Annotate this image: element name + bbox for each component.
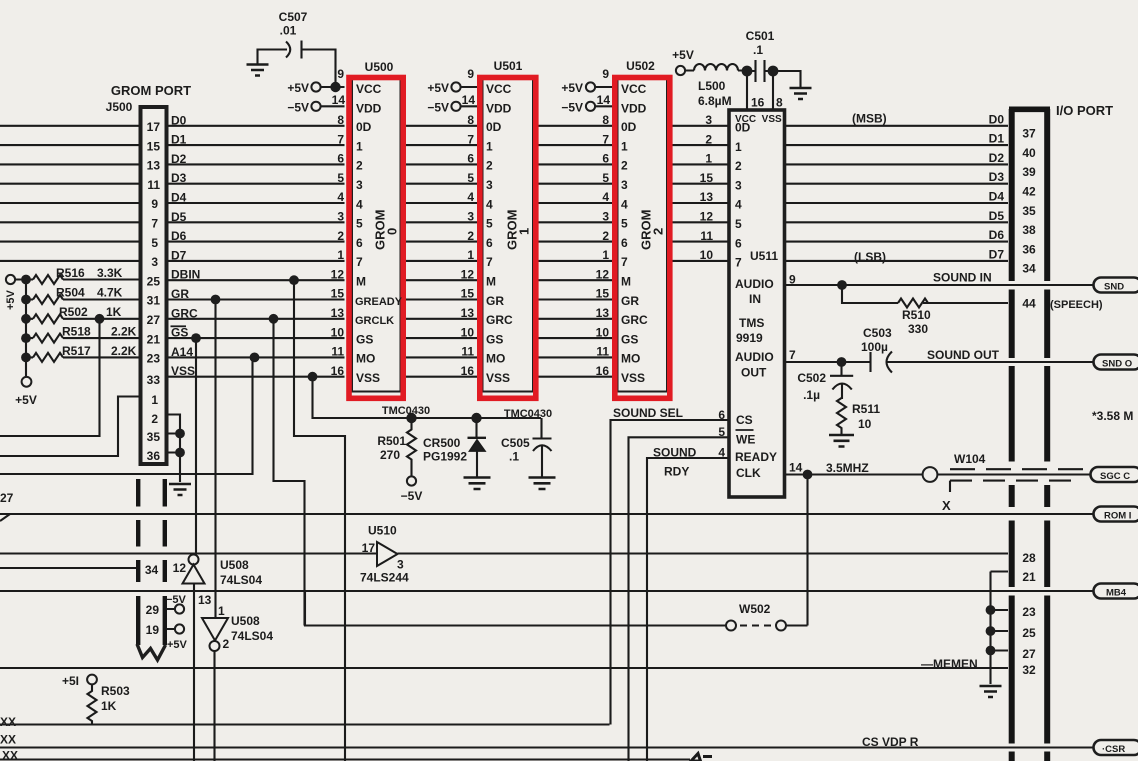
svg-text:5: 5 (602, 171, 609, 185)
svg-text:−5V: −5V (561, 100, 583, 114)
svg-text:+5V: +5V (561, 81, 583, 95)
svg-text:WE: WE (736, 433, 755, 447)
svg-text:7: 7 (486, 255, 493, 269)
wire A14 row (26, 356, 612, 358)
edge tab MB4 (1094, 584, 1138, 599)
svg-text:−5V: −5V (287, 100, 309, 114)
svg-text:XX: XX (2, 749, 18, 761)
jumper W502 right circle (776, 621, 786, 631)
junction dot GR (211, 295, 221, 305)
svg-text:2: 2 (151, 412, 158, 426)
junction dots C501 (742, 66, 753, 77)
svg-text:GS: GS (356, 332, 373, 346)
svg-text:4.7K: 4.7K (97, 286, 123, 300)
svg-text:M: M (621, 275, 631, 289)
svg-text:SOUND: SOUND (653, 446, 697, 460)
ground R511 (829, 435, 854, 447)
svg-text:11: 11 (147, 178, 160, 192)
svg-text:READY: READY (735, 450, 777, 464)
svg-text:9: 9 (602, 67, 609, 81)
svg-text:12: 12 (700, 210, 714, 224)
svg-text:D4: D4 (171, 191, 187, 205)
svg-text:MB4: MB4 (1106, 588, 1127, 599)
svg-text:6: 6 (467, 152, 474, 166)
wire R502 to edge (0, 319, 100, 436)
ground IO (980, 686, 1002, 697)
svg-text:6: 6 (337, 152, 344, 166)
junction dot GRC (269, 314, 279, 324)
svg-text:+5V: +5V (672, 48, 694, 62)
svg-text:U500: U500 (365, 60, 394, 74)
svg-text:9: 9 (789, 273, 796, 287)
wire D3 bus (0, 183, 1008, 185)
svg-text:2: 2 (705, 132, 712, 146)
svg-text:VCC: VCC (621, 82, 647, 96)
terminal +5I R503 (87, 675, 97, 685)
svg-text:D5: D5 (989, 209, 1005, 223)
svg-text:5: 5 (486, 217, 493, 231)
svg-text:R518: R518 (62, 325, 91, 339)
svg-text:GRCLK: GRCLK (355, 315, 394, 327)
edge tab CSR (1094, 740, 1138, 755)
svg-text:25: 25 (1022, 626, 1036, 640)
junction dot GS (191, 333, 201, 343)
wire W104 to SGC (938, 473, 1101, 475)
svg-text:2: 2 (486, 159, 493, 173)
svg-text:12: 12 (596, 267, 610, 281)
resistor R518 (33, 334, 63, 343)
svg-text:5: 5 (151, 236, 158, 250)
chip U511 box (729, 110, 785, 497)
svg-text:U502: U502 (626, 59, 655, 73)
svg-text:—MEMEN: —MEMEN (921, 657, 978, 671)
svg-text:15: 15 (596, 287, 610, 301)
connector J500 right bar dashes (163, 479, 167, 645)
svg-text:9: 9 (337, 67, 344, 81)
svg-text:X: X (942, 498, 951, 513)
svg-text:GS: GS (171, 326, 188, 340)
svg-text:SGC C: SGC C (1100, 471, 1130, 482)
resistor R501 (407, 418, 416, 477)
glyph bottom cut (691, 754, 712, 761)
svg-text:J500: J500 (106, 100, 133, 114)
ground pins35 36 (169, 484, 191, 495)
svg-text:U511: U511 (750, 249, 778, 263)
wire DBIN chain (294, 280, 345, 761)
svg-text:OUT: OUT (741, 366, 767, 380)
svg-text:VSS: VSS (621, 371, 645, 385)
svg-text:42: 42 (1022, 185, 1036, 199)
svg-text:GR: GR (621, 294, 639, 308)
wire ROM row (0, 514, 1093, 521)
wire SOUND IN (785, 284, 1094, 286)
svg-text:W104: W104 (954, 452, 986, 466)
wire pins29 19 stubs (167, 609, 176, 629)
wire MB4 row (0, 590, 1093, 592)
svg-text:AUDIO: AUDIO (735, 277, 774, 291)
svg-text:+5I: +5I (62, 674, 79, 688)
svg-text:GROM PORT: GROM PORT (111, 83, 191, 98)
svg-text:21: 21 (147, 332, 161, 346)
resistor R516 (33, 275, 63, 284)
highlight box U502 (615, 78, 670, 399)
wire A14 chain (0, 357, 253, 474)
svg-text:VDD: VDD (486, 101, 512, 115)
wire U511 pin8 (772, 71, 774, 110)
wire +5V pullup rail (25, 280, 27, 378)
capacitor C502 (830, 362, 853, 399)
svg-text:25: 25 (147, 274, 161, 288)
svg-text:13: 13 (700, 190, 714, 204)
svg-text:D0: D0 (171, 113, 187, 127)
svg-text:14: 14 (789, 461, 803, 475)
svg-text:GRC: GRC (621, 313, 648, 327)
highlight box U500 (349, 78, 403, 399)
svg-text:3.5MHZ: 3.5MHZ (826, 461, 869, 475)
svg-text:28: 28 (1022, 551, 1036, 565)
svg-text:4: 4 (735, 198, 742, 212)
svg-text:2: 2 (337, 229, 344, 243)
wire SOUND SEL chain (611, 420, 730, 725)
svg-text:6.8µM: 6.8µM (698, 94, 732, 108)
junction dot R502 right (95, 314, 105, 324)
svg-text:2.2K: 2.2K (111, 325, 137, 339)
wire pin1 elbow (0, 397, 141, 457)
wire VSS row (167, 376, 613, 378)
svg-text:6: 6 (356, 236, 363, 250)
svg-text:10: 10 (700, 248, 714, 262)
overline GS J500 (171, 325, 187, 327)
svg-text:C502: C502 (797, 371, 826, 385)
chip U500 box (352, 79, 401, 392)
svg-text:.1: .1 (753, 43, 763, 57)
svg-text:SOUND SEL: SOUND SEL (613, 406, 683, 420)
svg-text:RDY: RDY (664, 465, 689, 479)
svg-text:23: 23 (1022, 605, 1036, 619)
pin labels U511 (735, 121, 751, 270)
terminal -5V R501 (407, 476, 416, 485)
wire CS VDP R row (0, 746, 1093, 748)
junction dot R501 (406, 413, 416, 423)
capacitor C501 (747, 60, 801, 88)
svg-text:VDD: VDD (356, 101, 382, 115)
wire XX row3 (0, 758, 690, 760)
svg-text:D2: D2 (989, 151, 1005, 165)
wire U510 input (0, 552, 377, 554)
svg-text:CS VDP R: CS VDP R (862, 735, 919, 749)
inverter U508a (189, 555, 199, 565)
connector J500 left bar dashes (136, 479, 140, 645)
wire DBIN row (15, 278, 612, 281)
svg-text:1: 1 (218, 604, 225, 618)
svg-text:2: 2 (735, 159, 742, 173)
svg-text:12: 12 (173, 561, 187, 575)
svg-text:R503: R503 (101, 684, 130, 698)
svg-text:31: 31 (147, 294, 161, 308)
svg-text:23: 23 (147, 352, 161, 366)
wire GR chain (215, 300, 216, 761)
wire MEMEN row (0, 667, 1008, 669)
svg-text:−5V: −5V (427, 100, 449, 114)
wire D4 bus (0, 202, 1008, 204)
svg-text:D1: D1 (989, 132, 1005, 146)
svg-text:27: 27 (0, 491, 14, 505)
svg-text:7: 7 (735, 256, 742, 270)
svg-text:27: 27 (147, 313, 161, 327)
svg-text:C501: C501 (746, 29, 775, 43)
svg-text:5: 5 (718, 425, 725, 439)
svg-text:13: 13 (331, 306, 345, 320)
svg-text:15: 15 (700, 171, 714, 185)
svg-text:D3: D3 (989, 170, 1005, 184)
svg-text:1: 1 (356, 139, 363, 153)
svg-text:11: 11 (331, 345, 344, 359)
jumper W104 dashes above (950, 468, 1099, 470)
svg-text:+5V: +5V (287, 81, 309, 95)
svg-text:D6: D6 (989, 228, 1005, 242)
svg-text:D6: D6 (171, 229, 187, 243)
junction dot A14 (250, 353, 260, 363)
svg-text:2.2K: 2.2K (111, 344, 137, 358)
terminal -5V U501 (451, 102, 460, 111)
svg-text:17: 17 (147, 120, 161, 134)
wire U510 output to pin28 (398, 552, 1009, 554)
svg-text:11: 11 (596, 345, 609, 359)
svg-text:6: 6 (486, 236, 493, 250)
ground CR500 (464, 478, 491, 490)
svg-text:39: 39 (1022, 165, 1036, 179)
svg-text:35: 35 (147, 430, 161, 444)
svg-text:37: 37 (1022, 127, 1036, 141)
svg-text:74LS04: 74LS04 (231, 629, 273, 643)
edge tab SND (1094, 278, 1138, 293)
svg-text:DBIN: DBIN (171, 268, 200, 282)
terminal +5V DBIN (6, 275, 15, 284)
svg-text:35: 35 (1022, 204, 1036, 218)
wire GRC row (26, 318, 612, 320)
svg-text:0D: 0D (621, 120, 637, 134)
junction dots pins35 36 (175, 429, 185, 439)
svg-text:4: 4 (337, 190, 344, 204)
svg-text:74LS244: 74LS244 (360, 571, 409, 585)
svg-text:D4: D4 (989, 190, 1005, 204)
svg-text:D7: D7 (989, 247, 1005, 261)
svg-text:GRC: GRC (486, 313, 513, 327)
capacitor C503 (871, 352, 893, 373)
svg-text:W502: W502 (739, 602, 771, 616)
svg-text:3: 3 (397, 558, 404, 572)
svg-text:U501: U501 (494, 59, 523, 73)
svg-text:PG1992: PG1992 (423, 450, 467, 464)
svg-text:21: 21 (1022, 570, 1036, 584)
junction dots IO 23 25 27 (986, 605, 996, 615)
svg-text:10: 10 (858, 417, 872, 431)
svg-text:7: 7 (789, 348, 796, 362)
terminal +5V U501 (451, 82, 460, 91)
wire D6 bus (0, 241, 1008, 243)
svg-text:1: 1 (705, 152, 712, 166)
terminal -5V U500 (311, 102, 320, 111)
svg-text:13: 13 (596, 306, 610, 320)
svg-text:2: 2 (356, 159, 363, 173)
svg-text:−5V: −5V (166, 594, 187, 606)
chip U501 box (483, 79, 534, 392)
svg-text:VCC: VCC (356, 82, 382, 96)
svg-text:8: 8 (602, 113, 609, 127)
net labels D0-D7 right (989, 112, 1005, 261)
svg-text:4: 4 (718, 446, 725, 460)
svg-text:34: 34 (145, 563, 159, 577)
svg-text:13: 13 (147, 159, 161, 173)
svg-text:+5V: +5V (15, 393, 37, 407)
jumper W502 left circle (726, 621, 736, 631)
svg-text:16: 16 (596, 364, 610, 378)
svg-text:R516: R516 (56, 266, 85, 280)
svg-text:0: 0 (385, 228, 400, 235)
capacitor C507 (258, 41, 336, 88)
svg-text:9: 9 (467, 67, 474, 81)
svg-text:2: 2 (223, 637, 230, 651)
wire U511 pin16 (746, 71, 748, 110)
svg-text:I/O PORT: I/O PORT (1056, 103, 1113, 118)
svg-text:(LSB): (LSB) (854, 250, 886, 264)
terminal +5V U500 (311, 82, 320, 91)
svg-text:D2: D2 (171, 152, 187, 166)
wire XX row1 (0, 723, 610, 725)
svg-text:·CSR: ·CSR (1102, 744, 1125, 755)
terminal -5V U502 (586, 102, 595, 111)
wire SOUND RDY chain (647, 458, 729, 761)
svg-text:4: 4 (356, 197, 363, 211)
svg-text:+5V: +5V (427, 81, 449, 95)
jumper W502 dashes (740, 624, 772, 626)
resistor R504 (33, 295, 63, 304)
svg-text:VSS: VSS (171, 364, 195, 378)
resistor R510 (898, 299, 928, 308)
svg-text:.1µ: .1µ (803, 388, 820, 402)
svg-text:R501: R501 (377, 434, 406, 448)
svg-text:1: 1 (621, 139, 628, 153)
pin numbers IO port (1022, 127, 1036, 678)
edge tab SND O (1094, 355, 1138, 370)
svg-text:11: 11 (700, 229, 713, 243)
wire D7 bus (0, 260, 1008, 262)
pin numbers U501 (461, 67, 476, 378)
svg-text:VCC: VCC (486, 82, 512, 96)
svg-text:1: 1 (337, 248, 344, 262)
svg-text:GRC: GRC (171, 306, 198, 320)
wire GRC chain (274, 319, 305, 626)
svg-text:5: 5 (621, 217, 628, 231)
terminal +5V rail bottom (22, 377, 32, 387)
wire VSS to rail (313, 377, 542, 418)
svg-text:SOUND IN: SOUND IN (933, 271, 992, 285)
svg-text:MO: MO (486, 352, 505, 366)
svg-text:330: 330 (908, 322, 928, 336)
svg-text:16: 16 (751, 96, 765, 110)
svg-text:17: 17 (362, 541, 376, 555)
svg-text:12: 12 (331, 267, 345, 281)
svg-text:38: 38 (1022, 223, 1036, 237)
pin labels U500 (355, 82, 403, 385)
svg-text:44: 44 (1022, 297, 1036, 311)
svg-text:1K: 1K (106, 305, 122, 319)
svg-text:.1: .1 (509, 450, 519, 464)
svg-text:16: 16 (331, 364, 345, 378)
svg-text:100µ: 100µ (861, 340, 888, 354)
svg-text:U508: U508 (231, 614, 260, 628)
wire GS row (26, 337, 612, 339)
svg-text:U510: U510 (368, 524, 397, 538)
svg-text:(SPEECH): (SPEECH) (1050, 299, 1103, 311)
svg-text:5: 5 (467, 171, 474, 185)
svg-text:9919: 9919 (736, 331, 763, 345)
pin numbers U511 left (700, 113, 726, 460)
svg-text:1: 1 (486, 139, 493, 153)
svg-text:3: 3 (356, 178, 363, 192)
svg-text:74LS04: 74LS04 (220, 573, 262, 587)
svg-text:+5V: +5V (167, 639, 188, 651)
svg-text:*3.58 M: *3.58 M (1092, 409, 1133, 423)
svg-text:D5: D5 (171, 210, 187, 224)
ground C507 (247, 65, 269, 76)
resistor R503 (88, 685, 97, 725)
svg-text:R517: R517 (62, 344, 91, 358)
svg-text:36: 36 (147, 449, 161, 463)
svg-text:40: 40 (1022, 146, 1036, 160)
wire GR row (26, 298, 612, 300)
svg-text:SND O: SND O (1102, 359, 1132, 370)
svg-text:3.3K: 3.3K (97, 266, 123, 280)
svg-text:D3: D3 (171, 171, 187, 185)
svg-text:CR500: CR500 (423, 436, 461, 450)
svg-text:29: 29 (146, 603, 160, 617)
svg-text:3: 3 (735, 178, 742, 192)
svg-text:2: 2 (621, 159, 628, 173)
svg-text:15: 15 (461, 287, 475, 301)
svg-text:1: 1 (467, 248, 474, 262)
svg-text:0D: 0D (356, 120, 372, 134)
resistor R502 (33, 314, 63, 323)
svg-text:34: 34 (1022, 262, 1036, 276)
svg-text:XX: XX (0, 715, 16, 729)
svg-text:CS: CS (736, 413, 753, 427)
svg-text:GREADY: GREADY (355, 296, 403, 308)
svg-text:XX: XX (0, 733, 16, 747)
connector J500 box (141, 107, 167, 464)
svg-text:5: 5 (735, 217, 742, 231)
resistor R517 (33, 353, 63, 362)
svg-text:6: 6 (718, 408, 725, 422)
jumper W104 dashes below (950, 481, 1080, 492)
highlight box U501 (480, 78, 536, 399)
svg-text:VDD: VDD (621, 101, 647, 115)
svg-text:11: 11 (461, 345, 474, 359)
edge tab ROM (1094, 507, 1138, 522)
svg-text:19: 19 (146, 623, 160, 637)
svg-text:0D: 0D (486, 120, 502, 134)
svg-text:MO: MO (621, 352, 640, 366)
svg-text:SND: SND (1104, 282, 1124, 293)
svg-text:0D: 0D (735, 121, 751, 135)
junction dots rail (21, 275, 31, 285)
svg-text:D0: D0 (989, 112, 1005, 126)
svg-text:9: 9 (151, 197, 158, 211)
wire VCC pins (321, 86, 613, 88)
svg-text:TMS: TMS (739, 316, 764, 330)
svg-text:7: 7 (337, 132, 344, 146)
wire pin21 chain (991, 572, 1009, 685)
